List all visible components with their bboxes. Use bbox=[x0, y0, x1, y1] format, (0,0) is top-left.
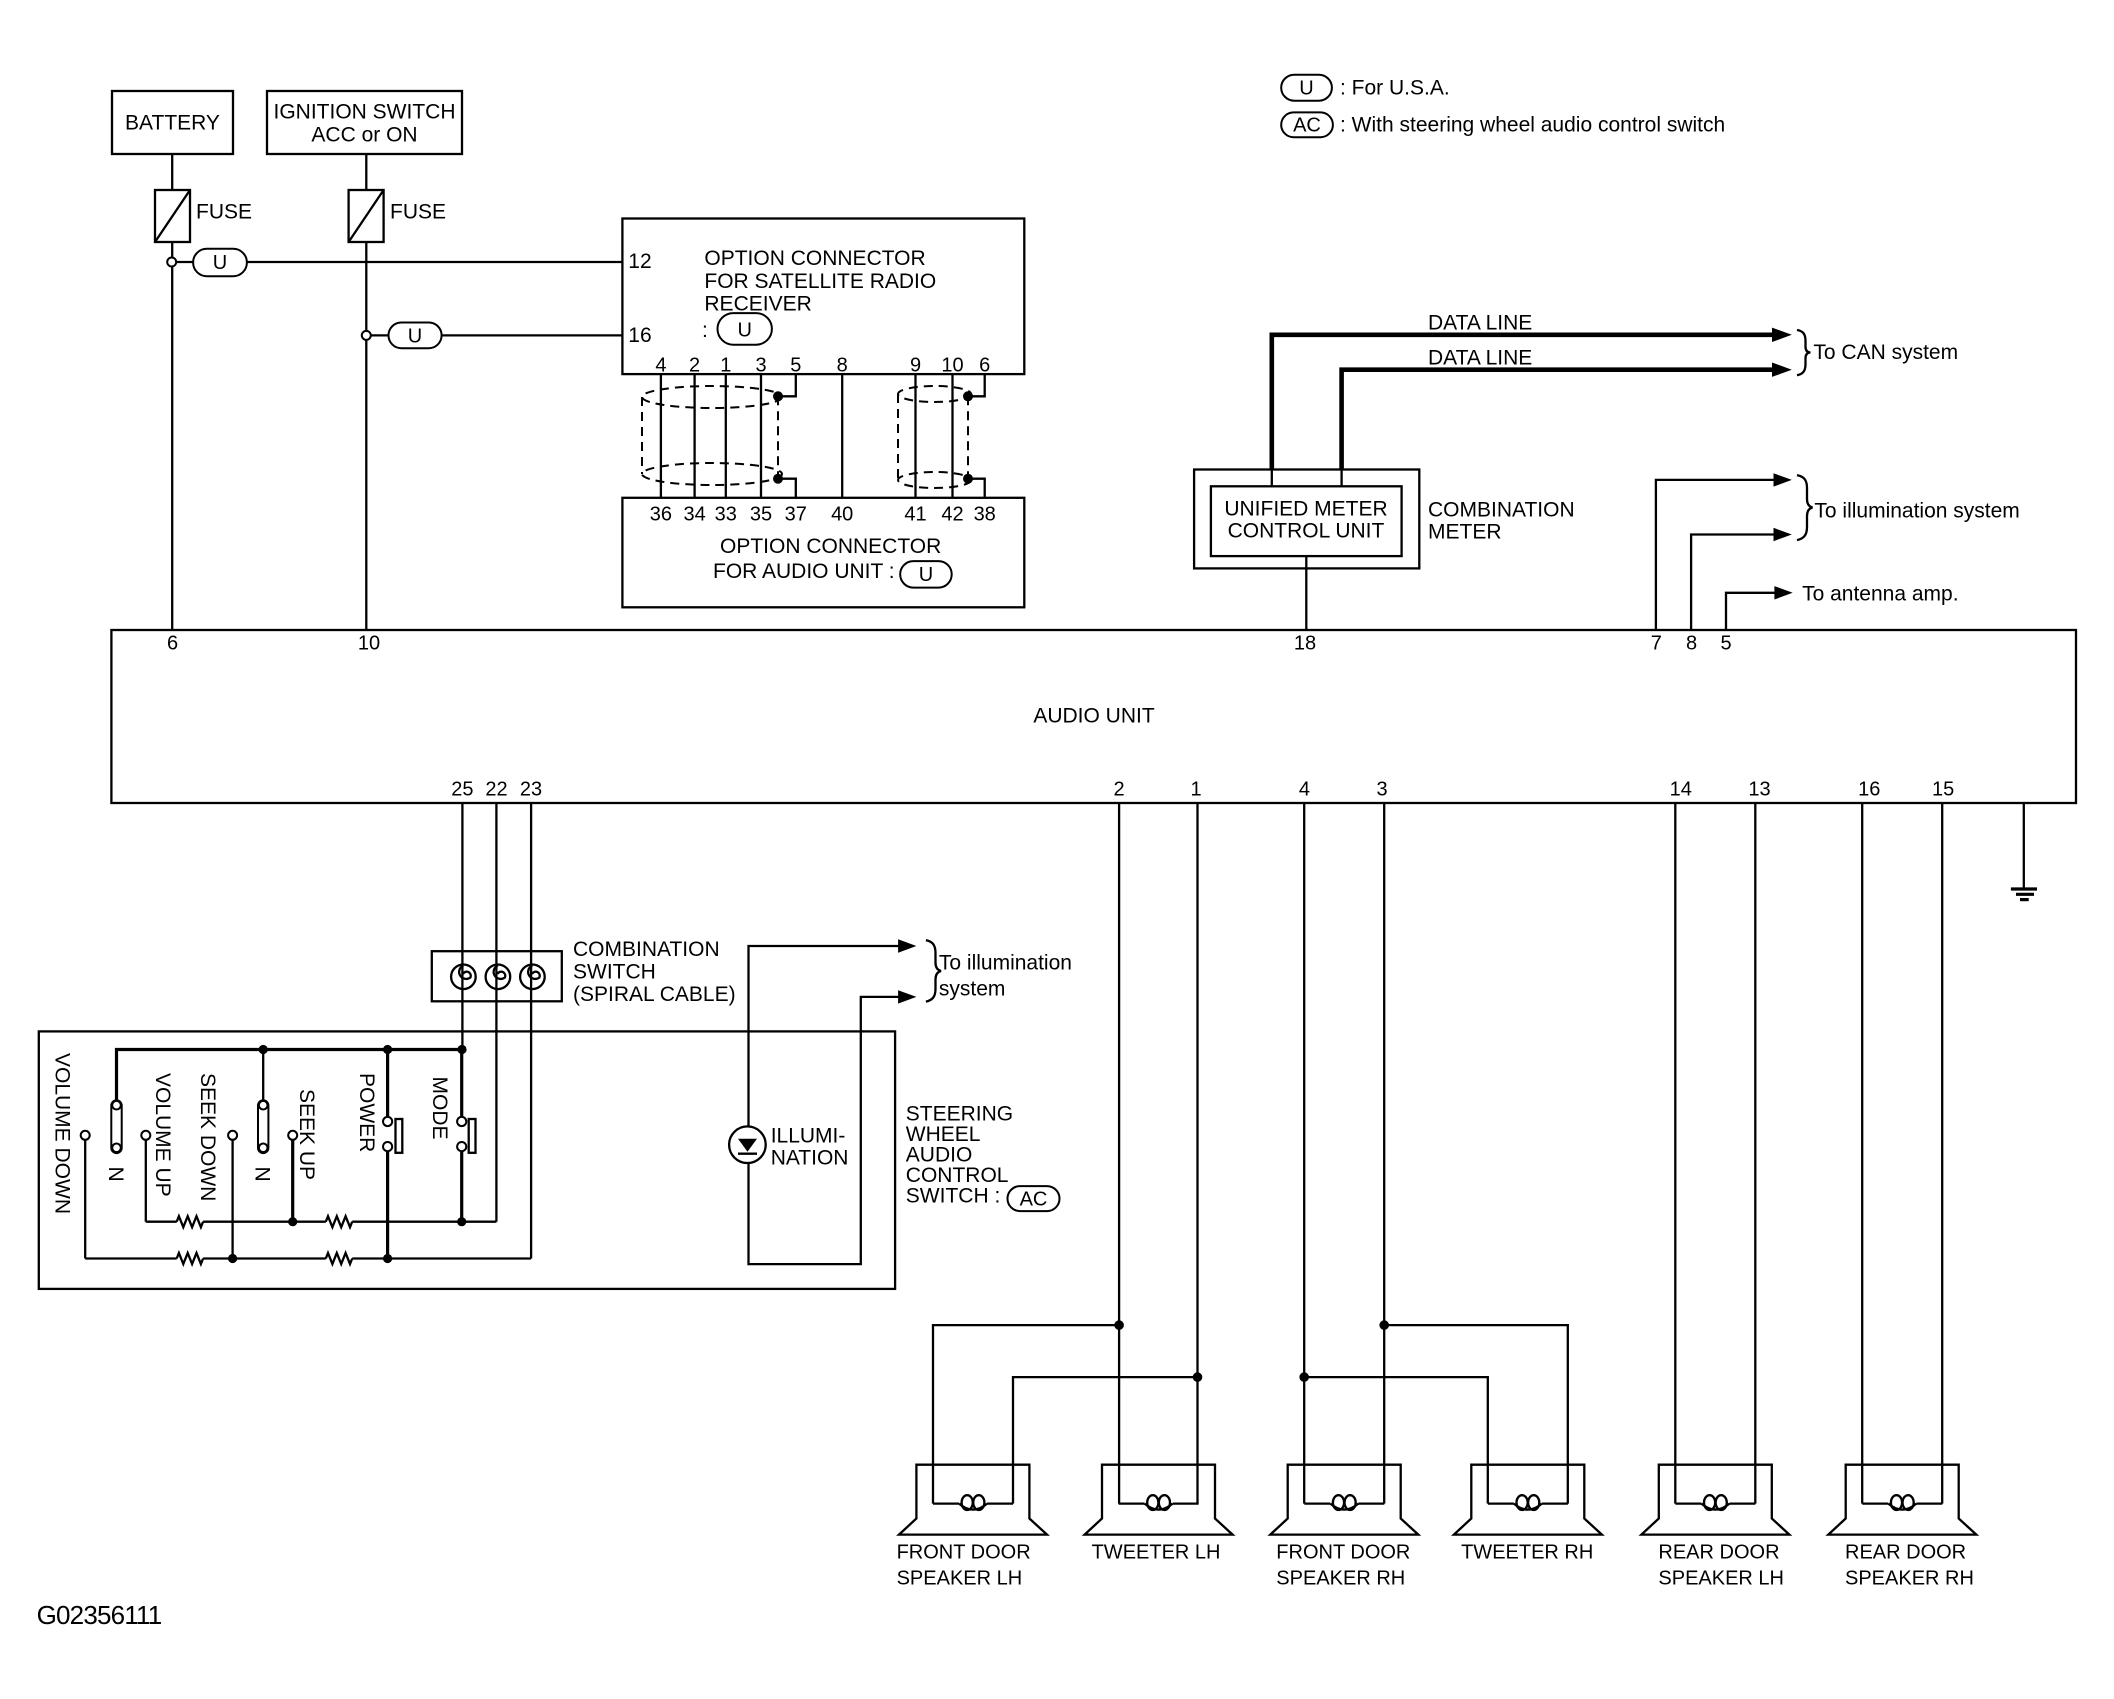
branch wire to front door speaker LH right bbox=[1013, 1377, 1198, 1504]
svg-text:SPEAKER LH: SPEAKER LH bbox=[1658, 1568, 1784, 1590]
wire audio pin 7 to illumination arrow bbox=[1656, 480, 1778, 630]
junction dot pin2 branch bbox=[1114, 1320, 1124, 1330]
junction dot bus / seek capsule bbox=[259, 1045, 268, 1054]
svg-text:TWEETER RH: TWEETER RH bbox=[1461, 1542, 1593, 1564]
svg-text:15: 15 bbox=[1932, 779, 1954, 801]
wire audio pin 3 to front door speaker RH right bbox=[1383, 803, 1385, 1504]
wire meter to audio unit pin 18 bbox=[1305, 556, 1307, 630]
svg-text:35: 35 bbox=[750, 504, 772, 526]
pin number row of satellite connector bbox=[655, 355, 990, 377]
wire audio pin 5 to antenna amp arrow bbox=[1726, 593, 1779, 630]
seek slide capsule bbox=[251, 1054, 274, 1182]
connector tag U (ignition branch) bbox=[389, 323, 442, 349]
svg-text:8: 8 bbox=[837, 355, 848, 377]
wire fuse to node bbox=[171, 242, 173, 258]
wire fuse2 down through node2 to audio unit pin 10 bbox=[365, 242, 367, 331]
junction dot bus / power bbox=[383, 1045, 392, 1054]
svg-text:DATA LINE: DATA LINE bbox=[1428, 347, 1532, 370]
combination switch (spiral cable) box bbox=[432, 938, 736, 1006]
svg-text:OPTION CONNECTOR: OPTION CONNECTOR bbox=[720, 535, 941, 558]
junction dot row2 / seek down bbox=[228, 1254, 237, 1263]
svg-text:AUDIO UNIT: AUDIO UNIT bbox=[1033, 705, 1155, 728]
wire shield to pin 38 bbox=[968, 479, 985, 498]
shield dashed drain wire right bbox=[967, 396, 969, 478]
battery B1 box bbox=[112, 91, 233, 154]
wire audio pin 14 to rear door speaker LH left bbox=[1674, 803, 1676, 1504]
svg-text:SEEK DOWN: SEEK DOWN bbox=[196, 1073, 219, 1201]
illumination return wire with arrow (lower) bbox=[749, 997, 904, 1264]
svg-text:system: system bbox=[939, 978, 1006, 1001]
svg-text:2: 2 bbox=[689, 355, 700, 377]
svg-text:U: U bbox=[408, 326, 422, 348]
svg-text:3: 3 bbox=[1376, 779, 1387, 801]
svg-text:U: U bbox=[919, 564, 933, 586]
svg-text:NATION: NATION bbox=[771, 1147, 849, 1170]
svg-text:N: N bbox=[104, 1167, 127, 1182]
svg-text:BATTERY: BATTERY bbox=[125, 112, 220, 135]
wire battery to fuse bbox=[171, 154, 173, 190]
junction dot pin4 branch bbox=[1299, 1372, 1309, 1382]
svg-text:5: 5 bbox=[790, 355, 801, 377]
wire audio pin 8 to illumination arrow bbox=[1691, 535, 1778, 631]
svg-text:: For U.S.A.: : For U.S.A. bbox=[1340, 77, 1450, 100]
svg-text:(SPIRAL CABLE): (SPIRAL CABLE) bbox=[573, 983, 736, 1006]
svg-text:SPEAKER LH: SPEAKER LH bbox=[897, 1568, 1023, 1590]
svg-text:U: U bbox=[1299, 78, 1313, 100]
svg-text:POWER: POWER bbox=[355, 1073, 378, 1152]
wire pin 6 jog to shield bbox=[968, 374, 985, 396]
resistor R4 bbox=[326, 1253, 352, 1264]
svg-text:REAR DOOR: REAR DOOR bbox=[1845, 1542, 1966, 1564]
illumination LED bbox=[729, 1126, 766, 1163]
svg-text:SPEAKER RH: SPEAKER RH bbox=[1845, 1568, 1974, 1590]
svg-text:REAR DOOR: REAR DOOR bbox=[1658, 1542, 1779, 1564]
svg-text:1: 1 bbox=[1190, 779, 1201, 801]
volume slide capsule bbox=[104, 1100, 127, 1181]
wire pin 1 to 33 bbox=[725, 374, 727, 498]
svg-text:5: 5 bbox=[1720, 633, 1731, 655]
resistor row 1 wire bbox=[146, 1221, 177, 1223]
svg-text:COMBINATION: COMBINATION bbox=[1428, 499, 1575, 522]
resistor R3 bbox=[177, 1253, 203, 1264]
svg-text:23: 23 bbox=[520, 779, 542, 801]
svg-text:10: 10 bbox=[358, 633, 380, 655]
svg-text:VOLUME UP: VOLUME UP bbox=[151, 1073, 174, 1197]
wire audio pin 2 to tweeter LH left bbox=[1118, 803, 1120, 1504]
svg-text:6: 6 bbox=[167, 633, 178, 655]
svg-text:SWITCH :: SWITCH : bbox=[906, 1185, 1001, 1208]
seek up contact and wire to row 1 bbox=[288, 1131, 297, 1222]
junction dot pin3 branch bbox=[1379, 1320, 1389, 1330]
svg-text:METER: METER bbox=[1428, 521, 1502, 544]
svg-text:OPTION CONNECTOR: OPTION CONNECTOR bbox=[704, 247, 925, 270]
switch common bus bbox=[117, 1050, 462, 1101]
wire audio pin 1 to tweeter LH right bbox=[1196, 803, 1198, 1504]
svg-text:41: 41 bbox=[904, 504, 926, 526]
junction dot bus / mode / pin 25 bbox=[457, 1045, 466, 1054]
junction dot row1 / mode bbox=[457, 1217, 466, 1226]
ground wire bbox=[2023, 803, 2025, 888]
svg-text:33: 33 bbox=[715, 504, 737, 526]
wire pin 2 to 34 bbox=[693, 374, 695, 498]
resistor R1 bbox=[177, 1216, 203, 1227]
speaker rear door RH bbox=[1828, 1465, 1976, 1535]
speaker tweeter LH bbox=[1085, 1465, 1233, 1535]
audio unit bottom pin labels bbox=[451, 779, 1954, 801]
svg-text:G02356111: G02356111 bbox=[37, 1600, 162, 1630]
wire audio pin 22 down through spiral cable to resistor row 1 bbox=[495, 803, 497, 1222]
wire pin 5 jog to shield bbox=[778, 374, 796, 396]
wire pin 3 to 35 bbox=[760, 374, 762, 498]
svg-text:IGNITION SWITCH: IGNITION SWITCH bbox=[274, 101, 456, 124]
svg-text:18: 18 bbox=[1294, 633, 1316, 655]
junction dot row1 / seek up bbox=[288, 1217, 297, 1226]
wire battery feed down to audio unit pin 6 bbox=[171, 266, 173, 630]
svg-text:TWEETER LH: TWEETER LH bbox=[1092, 1542, 1221, 1564]
svg-text:To antenna amp.: To antenna amp. bbox=[1802, 583, 1958, 606]
svg-text:40: 40 bbox=[831, 504, 853, 526]
power switch bbox=[383, 1050, 402, 1259]
junction dot shield top right bbox=[963, 391, 973, 401]
label steering wheel audio control switch bbox=[906, 1103, 1013, 1208]
svg-text:: With steering wheel audio co: : With steering wheel audio control swit… bbox=[1340, 114, 1725, 137]
speaker front door LH bbox=[899, 1465, 1047, 1535]
speaker rear door LH bbox=[1641, 1465, 1789, 1535]
svg-text:UNIFIED METER: UNIFIED METER bbox=[1224, 498, 1387, 521]
wire audio pin 4 to front door speaker RH left bbox=[1303, 803, 1305, 1504]
junction dot shield bottom left bbox=[773, 474, 783, 484]
wire node2 to U oval bbox=[371, 334, 389, 336]
svg-text:36: 36 bbox=[650, 504, 672, 526]
wire node to U connector oval bbox=[176, 261, 193, 263]
svg-text:4: 4 bbox=[1299, 779, 1310, 801]
option connector for audio unit box bbox=[622, 498, 1024, 608]
svg-text:SWITCH: SWITCH bbox=[573, 961, 656, 984]
resistor row 2 wire bbox=[85, 1257, 177, 1259]
wire audio pin 16 to rear door speaker RH left bbox=[1861, 803, 1863, 1504]
svg-text:13: 13 bbox=[1748, 779, 1770, 801]
node ignition junction bbox=[362, 331, 371, 340]
branch wire to front door speaker LH left bbox=[933, 1325, 1119, 1504]
illumination feed wire with arrow (upper) bbox=[749, 946, 904, 1127]
wire audio pin 13 to rear door speaker LH right bbox=[1754, 803, 1756, 1504]
svg-text:2: 2 bbox=[1114, 779, 1125, 801]
svg-text:To CAN system: To CAN system bbox=[1813, 341, 1958, 364]
ground symbol bbox=[2011, 889, 2037, 900]
svg-text:16: 16 bbox=[1858, 779, 1880, 801]
svg-text:FRONT DOOR: FRONT DOOR bbox=[897, 1542, 1031, 1564]
junction dot shield top left bbox=[773, 391, 783, 401]
junction dot row2 / power bbox=[383, 1254, 392, 1263]
branch wire to tweeter RH right bbox=[1384, 1325, 1568, 1504]
wire audio pin 23 down through spiral cable to resistor row 2 bbox=[530, 803, 532, 1259]
spiral contact 3 bbox=[520, 965, 545, 990]
svg-text:25: 25 bbox=[451, 779, 473, 801]
shield dashed drain wire left bbox=[777, 396, 779, 478]
brace To illumination system (switch) bbox=[926, 940, 941, 1002]
legend tag U bbox=[1281, 75, 1449, 101]
svg-text:12: 12 bbox=[628, 250, 651, 273]
unified meter control unit box bbox=[1211, 486, 1402, 556]
svg-text:FUSE: FUSE bbox=[390, 201, 446, 224]
connector tag U (audio unit) bbox=[900, 561, 952, 588]
brace To illumination system bbox=[1797, 475, 1813, 540]
wire to pin 12 of option connector bbox=[247, 261, 623, 263]
svg-text:SPEAKER RH: SPEAKER RH bbox=[1276, 1568, 1405, 1590]
connector tag U (satellite radio) bbox=[718, 313, 772, 345]
svg-text:8: 8 bbox=[1686, 633, 1697, 655]
legend tag AC bbox=[1281, 112, 1725, 137]
svg-text:22: 22 bbox=[485, 779, 507, 801]
wire audio pin 25 down through spiral cable to switch bus bbox=[461, 803, 463, 1050]
svg-text::: : bbox=[702, 319, 708, 342]
combination meter outer box bbox=[1194, 470, 1419, 569]
svg-text:FRONT DOOR: FRONT DOOR bbox=[1276, 1542, 1410, 1564]
svg-text:38: 38 bbox=[974, 504, 996, 526]
wire pin 4 to 36 bbox=[660, 374, 662, 498]
node battery junction bbox=[167, 258, 176, 267]
svg-text:VOLUME DOWN: VOLUME DOWN bbox=[51, 1053, 74, 1214]
volume down contact and wire to row 2 bbox=[81, 1131, 90, 1259]
svg-text:1: 1 bbox=[720, 355, 731, 377]
svg-text:ACC or ON: ACC or ON bbox=[311, 124, 417, 147]
wire pin 8 to 40 bbox=[841, 374, 843, 498]
wire pin 9 to 41 bbox=[914, 374, 916, 498]
data line 2 (CAN L) bbox=[1342, 347, 1792, 470]
svg-text:COMBINATION: COMBINATION bbox=[573, 938, 720, 961]
svg-text:10: 10 bbox=[941, 355, 963, 377]
speaker tweeter RH bbox=[1454, 1465, 1602, 1535]
svg-text:RECEIVER: RECEIVER bbox=[704, 293, 811, 316]
wire pin 10 to 42 bbox=[951, 374, 953, 498]
svg-text:FOR SATELLITE RADIO: FOR SATELLITE RADIO bbox=[704, 270, 936, 293]
svg-text:U: U bbox=[213, 252, 227, 274]
shielded cable bundle right (dashed cylinder) bbox=[898, 386, 971, 488]
wire to pin 16 of option connector bbox=[442, 334, 623, 336]
svg-text:7: 7 bbox=[1651, 633, 1662, 655]
connector tag U (battery branch) bbox=[193, 249, 247, 276]
audio unit box bbox=[111, 630, 2076, 803]
legend tag AC (switch) bbox=[1008, 1186, 1060, 1211]
svg-text:42: 42 bbox=[941, 504, 963, 526]
svg-text:CONTROL UNIT: CONTROL UNIT bbox=[1228, 520, 1385, 543]
wire shield to pin 37 bbox=[778, 479, 796, 498]
svg-text:AC: AC bbox=[1293, 115, 1321, 137]
svg-text:SEEK UP: SEEK UP bbox=[295, 1089, 318, 1180]
svg-text:FOR AUDIO UNIT :: FOR AUDIO UNIT : bbox=[713, 560, 895, 583]
option connector for satellite radio receiver box bbox=[622, 219, 1024, 375]
steering wheel audio control switch box bbox=[39, 1031, 895, 1289]
spiral contact 1 bbox=[451, 965, 476, 990]
wire audio pin 15 to rear door speaker RH right bbox=[1941, 803, 1943, 1504]
fuse F1 bbox=[155, 190, 252, 242]
wire data line 2 stub inside meter bbox=[1340, 470, 1342, 487]
junction dot pin1 branch bbox=[1193, 1372, 1203, 1382]
svg-text:DATA LINE: DATA LINE bbox=[1428, 312, 1532, 335]
data line 1 (CAN H) bbox=[1272, 312, 1792, 470]
svg-text:3: 3 bbox=[755, 355, 766, 377]
brace To CAN system bbox=[1797, 330, 1811, 375]
svg-text:FUSE: FUSE bbox=[196, 201, 252, 224]
wire data line 1 stub inside meter bbox=[1271, 470, 1273, 487]
svg-text:9: 9 bbox=[910, 355, 921, 377]
ignition switch box bbox=[267, 91, 462, 154]
speaker front door RH bbox=[1270, 1465, 1418, 1535]
seek down contact and wire to row 2 bbox=[228, 1131, 237, 1259]
svg-text:To illumination: To illumination bbox=[939, 952, 1072, 975]
svg-text:AC: AC bbox=[1020, 1189, 1048, 1211]
svg-text:To illumination system: To illumination system bbox=[1814, 500, 2019, 523]
svg-text:ILLUMI-: ILLUMI- bbox=[771, 1125, 846, 1148]
svg-text:37: 37 bbox=[785, 504, 807, 526]
svg-text:MODE: MODE bbox=[428, 1077, 451, 1140]
wire ignition to fuse bbox=[365, 154, 367, 190]
junction dot shield bottom right bbox=[963, 474, 973, 484]
fuse F2 bbox=[349, 190, 446, 242]
branch wire to tweeter RH left bbox=[1304, 1377, 1488, 1504]
svg-text:N: N bbox=[251, 1167, 274, 1182]
svg-text:34: 34 bbox=[683, 504, 705, 526]
mode switch bbox=[457, 1050, 475, 1222]
svg-text:14: 14 bbox=[1670, 779, 1692, 801]
volume up contact and wire to row 1 bbox=[141, 1131, 150, 1222]
shielded cable bundle left (dashed cylinder) bbox=[642, 386, 782, 485]
resistor R2 bbox=[326, 1216, 352, 1227]
svg-text:16: 16 bbox=[628, 324, 651, 347]
spiral contact 2 bbox=[486, 965, 511, 990]
svg-text:6: 6 bbox=[979, 355, 990, 377]
audio unit top pin labels bbox=[167, 633, 1732, 655]
svg-text:4: 4 bbox=[655, 355, 666, 377]
svg-text:U: U bbox=[737, 320, 751, 342]
